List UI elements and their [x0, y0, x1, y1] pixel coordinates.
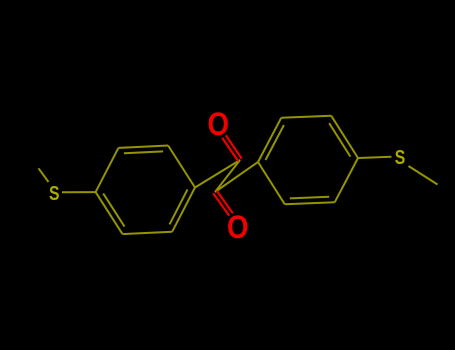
double bond C2=O2 (red pair line): [213, 193, 229, 216]
right benzene ring bond E'-F': [285, 202, 335, 204]
bond right ring C(D') to S2: [358, 157, 392, 158]
left ring aromatic double-bond inner line D-E: [170, 190, 188, 225]
central bond C1-C2: [215, 160, 240, 192]
left benzene ring bond D-E: [172, 188, 195, 232]
double bond C1=O1 (red pair line): [226, 135, 242, 159]
right ring aromatic double-bond inner line A'-B': [266, 125, 284, 160]
double bond C1=O1 (red pair line): [222, 138, 238, 162]
left ring aromatic double-bond inner line F-A: [103, 193, 124, 226]
bond methyl CH3 to S1: [39, 168, 49, 182]
right benzene ring bond D'-E': [335, 158, 358, 202]
left ring aromatic double-bond inner line B-C: [124, 151, 163, 153]
svg-text:S: S: [49, 182, 60, 205]
bond carbonyl C2 to right ring C(A'): [215, 162, 258, 192]
left benzene ring bond E-F: [123, 232, 173, 234]
double bond C2=O2 (red pair line): [217, 191, 233, 214]
svg-text:S: S: [395, 146, 406, 169]
bond left ring C(D) to carbonyl C1: [195, 160, 240, 188]
right benzene ring bond A'-B': [258, 118, 281, 162]
left benzene ring bond F-A: [96, 192, 123, 234]
right benzene ring bond F'-A': [258, 162, 285, 204]
left benzene ring bond B-C: [118, 146, 168, 148]
right benzene ring bond B'-C': [281, 116, 331, 118]
svg-text:O: O: [227, 209, 249, 245]
right benzene ring bond C'-D': [331, 116, 358, 158]
bond S2 to methyl CH3: [409, 166, 438, 185]
right ring aromatic double-bond inner line C'-D': [329, 123, 350, 156]
bond S1 to left ring C(A): [62, 191, 96, 193]
left benzene ring bond A-B: [96, 148, 119, 192]
svg-text:O: O: [207, 106, 229, 142]
left benzene ring bond C-D: [168, 146, 195, 188]
right ring aromatic double-bond inner line E'-F': [290, 197, 329, 199]
